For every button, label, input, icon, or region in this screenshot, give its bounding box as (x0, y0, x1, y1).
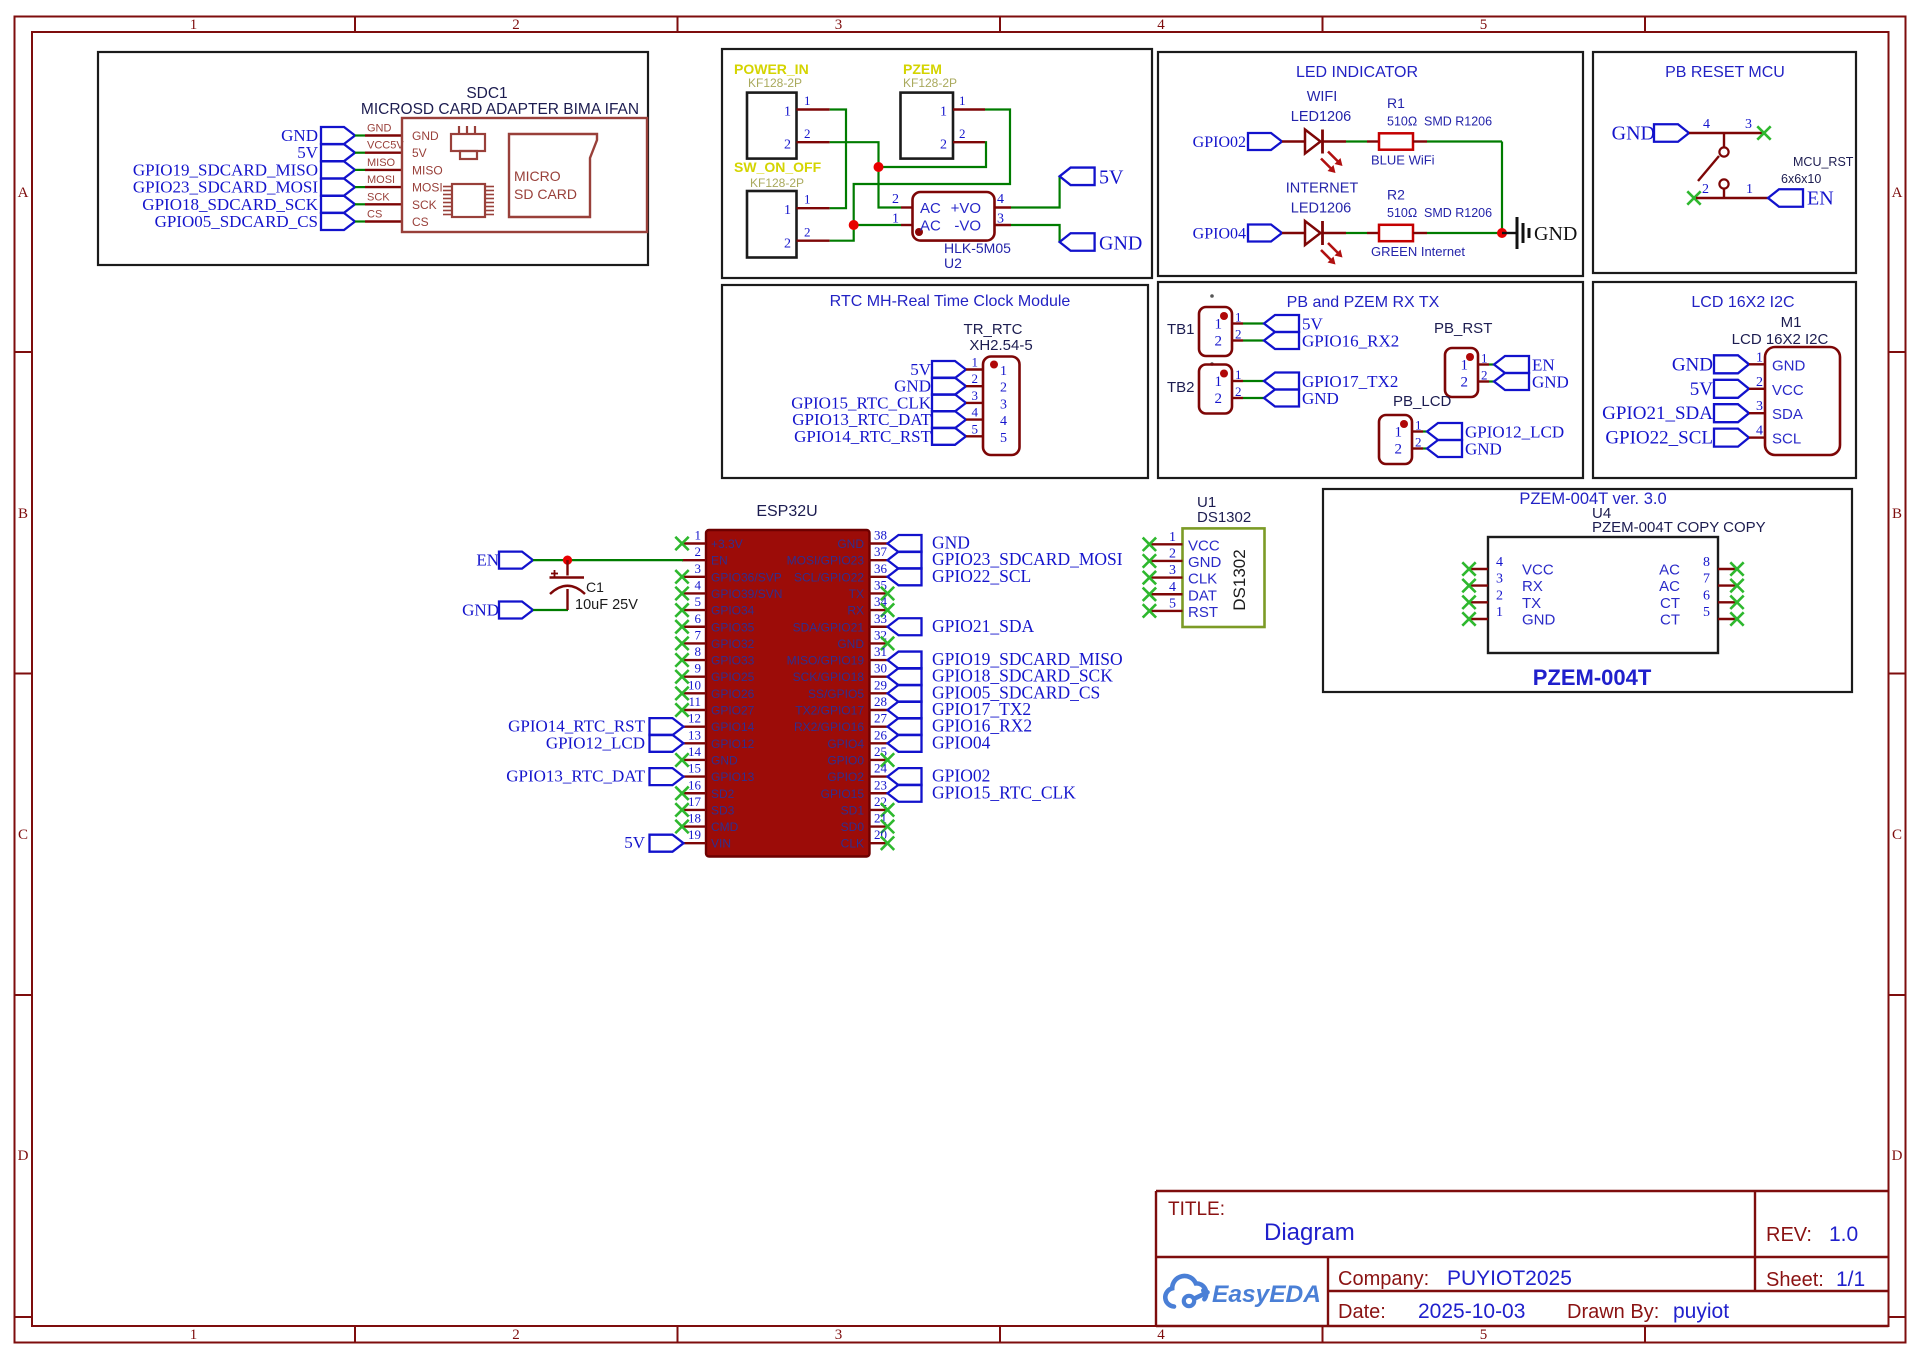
wire PB_LCD.1 to flag (1423, 430, 1427, 432)
svg-text:15: 15 (688, 761, 701, 776)
svg-text:GPIO33: GPIO33 (711, 654, 755, 668)
svg-text:5: 5 (695, 594, 702, 609)
svg-text:GPIO15_RTC_CLK: GPIO15_RTC_CLK (932, 782, 1076, 802)
pin stub M1.2 (1749, 388, 1765, 390)
svg-text:GPIO18_SDCARD_SCK: GPIO18_SDCARD_SCK (142, 195, 318, 214)
ic U1 DS1302 body (1183, 528, 1265, 627)
ESP32U pin 32 GND stub (870, 642, 888, 644)
svg-text:1: 1 (1215, 374, 1223, 390)
net flag GND lcd (1714, 355, 1749, 373)
no-connect X ESP32U pin 25 (881, 753, 894, 766)
wire junction down to HLK pin2 (879, 167, 902, 208)
PZEM pin 2 stub (1469, 601, 1488, 603)
connector TB1 body (1199, 307, 1232, 356)
wire POWER_IN.1 to SW_ON_OFF.1 (830, 110, 846, 209)
wire LED cathode to resistor R1 (1323, 140, 1347, 142)
LED light arrows (1328, 243, 1338, 253)
net flag GPIO22_SCL lcd (1714, 429, 1749, 447)
SDC1 ic chip symbol (452, 184, 485, 217)
connector TR_RTC body (983, 357, 1020, 456)
no-connect X ESP32U pin 5 (675, 603, 688, 616)
pin stub TR_RTC 3 (966, 402, 983, 404)
svg-text:12: 12 (688, 711, 701, 726)
no-connect X switch pin2 (1687, 191, 1700, 204)
net flag GPIO13_RTC_DAT esp left (650, 768, 684, 785)
svg-text:7: 7 (1703, 572, 1710, 587)
ESP32U pin 21 SD0 stub (870, 825, 888, 827)
no-connect X DS1302 pin 5 (1143, 604, 1156, 617)
wire GND to SDC1 GND (355, 134, 365, 136)
svg-text:GPIO19_SDCARD_MISO: GPIO19_SDCARD_MISO (133, 160, 318, 179)
no-connect X switch pin3 (1757, 126, 1770, 139)
ESP32U pin 35 TX stub (870, 592, 888, 594)
svg-text:PZEM-004T: PZEM-004T (1533, 665, 1652, 690)
ESP32U pin 6 GPIO35 stub (682, 626, 706, 628)
svg-text:SCK: SCK (412, 198, 437, 212)
svg-text:puyiot: puyiot (1673, 1300, 1729, 1323)
svg-text:KF128-2P: KF128-2P (748, 76, 802, 90)
svg-text:SCL/GPIO22: SCL/GPIO22 (794, 570, 864, 584)
svg-text:2: 2 (1496, 588, 1503, 603)
no-connect X ESP32U pin 17 (675, 803, 688, 816)
no-connect X DS1302 pin 4 (1143, 588, 1156, 601)
net flag EN (1494, 356, 1529, 373)
tiny dot above TB2 (1210, 362, 1214, 366)
svg-text:28: 28 (874, 694, 887, 709)
svg-text:2: 2 (804, 126, 811, 141)
DS1302 pin 4 stub (1150, 593, 1183, 595)
svg-text:A: A (1892, 185, 1903, 201)
svg-text:2: 2 (695, 544, 702, 559)
svg-text:38: 38 (874, 528, 887, 543)
ESP32U pin 28 TX2/GPIO17 stub (870, 709, 888, 711)
no-connect X ESP32U pin 22 (881, 803, 894, 816)
net flag EN reset (1768, 189, 1803, 207)
svg-text:GND: GND (837, 537, 864, 551)
svg-text:GPIO16_RX2: GPIO16_RX2 (1302, 332, 1399, 351)
ESP32U pin 20 CLK stub (870, 842, 888, 844)
net flag GND esp right (888, 535, 922, 552)
ESP32U pin 12 GPIO14 stub (682, 725, 706, 727)
svg-text:GPIO34: GPIO34 (711, 604, 755, 618)
net flag 5V esp left (650, 835, 684, 852)
svg-text:SD CARD: SD CARD (514, 186, 577, 202)
svg-text:VCC: VCC (1772, 382, 1804, 399)
ESP32U pin 18 CMD stub (682, 825, 706, 827)
net flag GPIO05_SDCARD_CS (321, 213, 355, 230)
PB_RST pin1 marker (1466, 353, 1474, 361)
block frame PZEM-004T (1323, 489, 1852, 692)
svg-text:GND: GND (1302, 389, 1339, 408)
svg-text:18: 18 (688, 811, 701, 826)
svg-text:4: 4 (1756, 424, 1763, 439)
svg-text:ESP32U: ESP32U (756, 503, 817, 520)
svg-text:SD0: SD0 (841, 820, 865, 834)
net flag GND reset (1654, 124, 1689, 142)
no-connect X PZEM pin 7 (1730, 579, 1743, 592)
pin stub TR_RTC 2 (966, 385, 983, 387)
svg-text:GND: GND (1522, 612, 1556, 629)
svg-text:SDA: SDA (1772, 406, 1803, 423)
no-connect X ESP32U pin 6 (675, 620, 688, 633)
block frame LCD 16x2 I2C (1593, 282, 1856, 478)
svg-text:2: 2 (1702, 182, 1709, 197)
net flag 5V (1264, 315, 1299, 332)
svg-text:TX2/GPIO17: TX2/GPIO17 (795, 704, 864, 718)
no-connect X ESP32U pin 1 (675, 537, 688, 550)
component U4 PZEM-004T body (1488, 537, 1718, 653)
svg-text:31: 31 (874, 644, 887, 659)
wire TB1.1 to flag (1243, 322, 1264, 324)
svg-text:TX: TX (849, 587, 864, 601)
svg-text:GPIO22_SCL: GPIO22_SCL (1605, 428, 1713, 449)
svg-text:6: 6 (1703, 588, 1710, 603)
svg-text:19: 19 (688, 827, 701, 842)
svg-text:CLK: CLK (1188, 571, 1217, 588)
svg-text:2: 2 (1461, 375, 1469, 391)
svg-text:EN: EN (476, 551, 499, 570)
svg-text:24: 24 (874, 761, 888, 776)
no-connect X ESP32U pin 32 (881, 637, 894, 650)
no-connect X ESP32U pin 21 (881, 820, 894, 833)
svg-text:3: 3 (972, 388, 979, 403)
pin stub SDC1 MOSI (365, 186, 402, 188)
pin stub TR_RTC 5 (966, 435, 983, 437)
svg-text:GPIO14_RTC_RST: GPIO14_RTC_RST (794, 427, 932, 446)
ESP32U pin 31 MISO/GPIO19 stub (870, 659, 888, 661)
svg-text:3: 3 (1000, 397, 1007, 412)
svg-text:4: 4 (1169, 580, 1176, 595)
svg-text:GPIO21_SDA: GPIO21_SDA (932, 616, 1034, 636)
net flag GND (1494, 373, 1529, 390)
net flag 5V (321, 144, 355, 161)
svg-text:RX: RX (847, 604, 864, 618)
svg-text:Sheet:: Sheet: (1766, 1269, 1824, 1291)
svg-text:2: 2 (972, 371, 979, 386)
svg-text:1: 1 (959, 93, 966, 108)
svg-text:5V: 5V (1099, 167, 1124, 189)
svg-text:GPIO4: GPIO4 (827, 737, 864, 751)
svg-text:1: 1 (1395, 425, 1403, 441)
LED light arrows (1328, 152, 1338, 162)
svg-text:DS1302: DS1302 (1230, 549, 1249, 610)
net flag GND cap (499, 602, 533, 619)
net flag GPIO12_LCD esp left (650, 735, 684, 752)
LED WIFI LED1206 symbol (1305, 130, 1321, 154)
PZEM pin 1 stub (1469, 618, 1488, 620)
svg-text:5V: 5V (624, 833, 646, 852)
ESP32U pin 2 EN stub (682, 559, 706, 561)
net flag GPIO19_SDCARD_MISO (321, 161, 355, 178)
svg-text:SD3: SD3 (711, 803, 735, 817)
svg-text:5: 5 (1703, 605, 1710, 620)
pin stub M1.3 (1749, 412, 1765, 414)
PZEM pin 5 stub (1718, 618, 1737, 620)
svg-text:U2: U2 (944, 255, 962, 271)
svg-text:4: 4 (695, 577, 702, 592)
svg-text:1: 1 (1215, 317, 1223, 333)
svg-text:4: 4 (1157, 17, 1165, 33)
wire junction up and over to PZEM.1 (854, 110, 1010, 226)
svg-text:LED1206: LED1206 (1291, 201, 1351, 217)
svg-text:5: 5 (1169, 596, 1176, 611)
svg-text:10: 10 (688, 677, 701, 692)
DS1302 pin 5 stub (1150, 610, 1183, 612)
svg-text:C: C (18, 827, 28, 843)
svg-text:3: 3 (835, 1327, 843, 1343)
svg-text:MOSI/GPIO23: MOSI/GPIO23 (787, 554, 865, 568)
svg-text:DAT: DAT (1188, 587, 1217, 604)
wire 5V to SDC1 VCC5V (355, 152, 365, 154)
svg-text:4: 4 (997, 192, 1004, 207)
component U2 HLK-5M05 body (913, 192, 995, 241)
svg-text:LED INDICATOR: LED INDICATOR (1296, 64, 1418, 81)
svg-text:GPIO04: GPIO04 (932, 732, 991, 752)
svg-text:RST: RST (1188, 604, 1218, 621)
junction dot EN capacitor (563, 556, 572, 565)
svg-text:GPIO05_SDCARD_CS: GPIO05_SDCARD_CS (155, 212, 318, 231)
mcu U3 ESP32U body (706, 530, 870, 857)
svg-text:DS1302: DS1302 (1197, 509, 1251, 526)
no-connect X ESP32U pin 10 (675, 687, 688, 700)
svg-text:CLK: CLK (841, 837, 864, 851)
svg-text:VCC: VCC (1522, 562, 1554, 579)
no-connect X ESP32U pin 11 (675, 703, 688, 716)
block frame PB reset MCU (1593, 52, 1856, 273)
PZEM pin 7 stub (1718, 584, 1737, 586)
net flag GND (1264, 390, 1299, 407)
block frame LED indicator (1158, 52, 1583, 276)
svg-text:1: 1 (804, 93, 811, 108)
junction dot AC line2 (849, 220, 859, 230)
svg-text:VCC: VCC (1188, 537, 1220, 554)
junction dot LED ground (1497, 228, 1507, 238)
svg-text:PB_LCD: PB_LCD (1393, 393, 1452, 410)
wire resistor R1 right (1413, 140, 1427, 142)
no-connect X PZEM pin 1 (1462, 612, 1475, 625)
pin stub PB_RST.2 (1478, 380, 1489, 382)
no-connect X ESP32U pin 4 (675, 587, 688, 600)
svg-text:2: 2 (1000, 381, 1007, 396)
svg-text:GPIO21_SDA: GPIO21_SDA (1602, 403, 1713, 424)
net flag EN (499, 552, 533, 569)
svg-text:MCU_RST: MCU_RST (1793, 155, 1854, 169)
svg-text:GPIO27: GPIO27 (711, 704, 755, 718)
svg-text:36: 36 (874, 561, 888, 576)
svg-text:1: 1 (972, 355, 979, 370)
svg-text:RX2/GPIO16: RX2/GPIO16 (794, 720, 864, 734)
svg-text:5: 5 (1480, 1327, 1488, 1343)
svg-text:GPIO25: GPIO25 (711, 670, 755, 684)
svg-text:EN: EN (1807, 188, 1834, 210)
resistor R1 body (1379, 133, 1413, 149)
no-connect X ESP32U pin 7 (675, 637, 688, 650)
svg-text:SCK: SCK (367, 191, 390, 203)
svg-text:SDA/GPIO21: SDA/GPIO21 (793, 620, 865, 634)
wire GPIO18_SDCARD_SCK to SDC1 SCK (355, 203, 365, 205)
svg-text:6: 6 (695, 611, 702, 626)
net flag GPIO19_SDCARD_MISO esp right (888, 652, 922, 669)
svg-text:2: 2 (1415, 435, 1422, 450)
svg-text:2: 2 (784, 236, 791, 251)
svg-text:GPIO22_SCL: GPIO22_SCL (932, 566, 1031, 586)
no-connect X ESP32U pin 8 (675, 653, 688, 666)
svg-text:EN: EN (711, 554, 728, 568)
svg-text:1: 1 (1481, 351, 1488, 366)
connector TB2 body (1199, 365, 1232, 414)
svg-text:SMD R1206: SMD R1206 (1424, 206, 1492, 220)
block frame RTC module (722, 285, 1148, 478)
svg-text:1: 1 (1415, 418, 1422, 433)
svg-text:LED1206: LED1206 (1291, 109, 1351, 125)
pin stub SDC1 MISO (365, 169, 402, 171)
svg-text:2: 2 (804, 225, 811, 240)
svg-text:TB1: TB1 (1167, 321, 1195, 338)
svg-text:BLUE WiFi: BLUE WiFi (1371, 153, 1435, 168)
wire SW_ON_OFF.2 up to junction (830, 225, 854, 241)
svg-text:510Ω: 510Ω (1387, 115, 1417, 129)
wire GPIO23_SDCARD_MOSI to SDC1 MOSI (355, 186, 365, 188)
wire PB_RST.2 to flag (1489, 380, 1494, 382)
pin stub SDC1 CS (365, 220, 402, 222)
svg-text:GPIO14: GPIO14 (711, 720, 755, 734)
net flag GPIO13_RTC_DAT rtc (932, 411, 966, 428)
svg-text:4: 4 (1000, 414, 1007, 429)
svg-text:HLK-5M05: HLK-5M05 (944, 240, 1011, 256)
svg-text:37: 37 (874, 544, 888, 559)
PZEM pin 8 stub (1718, 568, 1737, 570)
pushbutton MCU_RST symbol (1723, 133, 1725, 147)
PZEM pin 3 stub (1469, 584, 1488, 586)
svg-text:RX: RX (1522, 578, 1543, 595)
svg-text:GPIO02: GPIO02 (1193, 134, 1246, 151)
DS1302 pin 3 stub (1150, 576, 1183, 578)
SDC1 micro sd card outline (509, 134, 597, 217)
pin stub TR_RTC 4 (966, 418, 983, 420)
wire GPIO04 to LED anode (1282, 232, 1305, 234)
wire GND flag to capacitor (533, 609, 568, 611)
svg-text:GND: GND (1099, 233, 1142, 255)
resistor R2 body (1379, 225, 1413, 241)
svg-text:PB and PZEM RX TX: PB and PZEM RX TX (1287, 294, 1440, 311)
no-connect X PZEM pin 6 (1730, 596, 1743, 609)
svg-text:1: 1 (1000, 364, 1007, 379)
ESP32U pin 14 GND stub (682, 759, 706, 761)
no-connect X ESP32U pin 16 (675, 787, 688, 800)
wire POWER_IN.2 to junction to PZEM.2 (830, 142, 986, 167)
ESP32U pin 34 RX stub (870, 609, 888, 611)
no-connect X ESP32U pin 14 (675, 753, 688, 766)
DS1302 pin 1 stub (1150, 543, 1183, 545)
svg-text:5: 5 (1480, 17, 1488, 33)
no-connect X ESP32U pin 3 (675, 570, 688, 583)
svg-text:5: 5 (972, 421, 979, 436)
ESP32U pin 17 SD3 stub (682, 809, 706, 811)
svg-text:GPIO15: GPIO15 (821, 787, 865, 801)
net flag 5V lcd (1714, 380, 1749, 398)
svg-text:CMD: CMD (711, 820, 739, 834)
svg-text:GPIO13_RTC_DAT: GPIO13_RTC_DAT (506, 767, 645, 786)
wire switch pin1 to EN flag (1696, 197, 1768, 199)
svg-text:1: 1 (1169, 530, 1176, 545)
connector PZEM body (901, 93, 954, 159)
pin stub M1.1 (1749, 363, 1765, 365)
svg-text:8: 8 (695, 644, 702, 659)
wire GPIO02 to LED anode (1282, 140, 1305, 142)
svg-text:SCL: SCL (1772, 431, 1801, 448)
pin stub TB2.1 (1232, 380, 1243, 382)
ESP32U pin 26 GPIO4 stub (870, 742, 888, 744)
connector POWER_IN pins (797, 108, 830, 110)
svg-text:AC: AC (1659, 578, 1680, 595)
svg-text:VIN: VIN (711, 837, 731, 851)
svg-text:5: 5 (1000, 431, 1007, 446)
svg-text:CS: CS (412, 215, 429, 229)
pin stub M1.4 (1749, 436, 1765, 438)
svg-text:GND: GND (462, 601, 499, 620)
svg-text:GND: GND (367, 123, 392, 135)
ESP32U pin 30 SCK/GPIO18 stub (870, 676, 888, 678)
svg-text:2: 2 (784, 138, 791, 153)
svg-text:1: 1 (190, 1327, 198, 1343)
svg-text:+VO: +VO (951, 200, 981, 217)
title block outline (1156, 1191, 1889, 1326)
svg-text:RTC MH-Real Time Clock Module: RTC MH-Real Time Clock Module (830, 293, 1071, 310)
net flag GPIO02 esp right (888, 768, 922, 785)
svg-text:16: 16 (688, 777, 702, 792)
svg-text:3: 3 (997, 212, 1004, 227)
svg-text:2025-10-03: 2025-10-03 (1418, 1300, 1525, 1323)
no-connect X PZEM pin 4 (1462, 562, 1475, 575)
svg-text:KF128-2P: KF128-2P (903, 76, 957, 90)
svg-text:1: 1 (804, 192, 811, 207)
net flag GPIO17_TX2 (1264, 373, 1299, 390)
svg-text:7: 7 (695, 627, 702, 642)
wire junction to ground symbol (1502, 232, 1516, 234)
no-connect X ESP32U pin 34 (881, 603, 894, 616)
no-connect X PZEM pin 3 (1462, 579, 1475, 592)
svg-text:5V: 5V (412, 146, 427, 160)
svg-text:MISO: MISO (367, 157, 396, 169)
svg-text:1: 1 (1235, 367, 1242, 382)
net flag GPIO14_RTC_RST rtc (932, 428, 966, 445)
PB_LCD pin1 marker (1400, 420, 1408, 428)
ground symbol GND (1516, 217, 1519, 249)
svg-text:PUYIOT2025: PUYIOT2025 (1447, 1267, 1572, 1290)
svg-text:2: 2 (1169, 546, 1176, 561)
net flag GND (1427, 440, 1462, 457)
pin stub TB1.2 (1232, 339, 1243, 341)
svg-text:2: 2 (1395, 442, 1403, 458)
svg-text:1: 1 (1496, 605, 1503, 620)
svg-text:C: C (1892, 827, 1902, 843)
ESP32U pin 16 SD2 stub (682, 792, 706, 794)
wire EN flag to ESP32U pin2 (533, 559, 683, 561)
ESP32U pin 22 SD1 stub (870, 809, 888, 811)
svg-text:GPIO13: GPIO13 (711, 770, 755, 784)
svg-text:5V: 5V (1690, 379, 1714, 400)
ESP32U pin 38 GND stub (870, 542, 888, 544)
net flag GPIO04 (1248, 225, 1282, 242)
PZEM pin 6 stub (1718, 601, 1737, 603)
net flag 5V output (1060, 168, 1095, 186)
no-connect X PZEM pin 5 (1730, 612, 1743, 625)
LED INTERNET LED1206 symbol (1305, 221, 1321, 245)
net flag GPIO16_RX2 esp right (888, 718, 922, 735)
ESP32U pin 10 GPIO26 stub (682, 692, 706, 694)
net flag GPIO14_RTC_RST esp left (650, 718, 684, 735)
svg-text:GPIO12_LCD: GPIO12_LCD (546, 733, 645, 752)
